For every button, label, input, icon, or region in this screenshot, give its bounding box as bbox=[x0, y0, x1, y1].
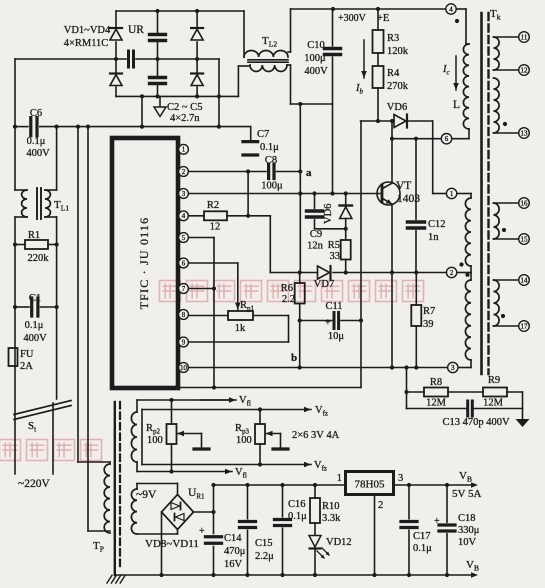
svg-text:330μ: 330μ bbox=[458, 525, 480, 536]
svg-text:1: 1 bbox=[182, 146, 186, 154]
svg-text:14: 14 bbox=[521, 276, 529, 284]
svg-text:R5: R5 bbox=[328, 240, 340, 251]
svg-text:+: + bbox=[325, 318, 331, 329]
svg-text:+: + bbox=[199, 526, 205, 537]
svg-text:8: 8 bbox=[182, 311, 186, 319]
svg-text:VT: VT bbox=[396, 180, 411, 192]
svg-text:100μ: 100μ bbox=[304, 53, 326, 64]
svg-text:16V: 16V bbox=[224, 559, 243, 570]
svg-text:0.1μ: 0.1μ bbox=[288, 511, 307, 522]
svg-text:C9: C9 bbox=[310, 229, 322, 240]
svg-text:1: 1 bbox=[450, 190, 454, 198]
svg-text:C15: C15 bbox=[255, 538, 273, 549]
svg-text:C8: C8 bbox=[265, 155, 277, 166]
svg-text:10μ: 10μ bbox=[328, 331, 345, 342]
svg-text:C18: C18 bbox=[458, 513, 476, 524]
svg-text:R4: R4 bbox=[387, 68, 400, 79]
svg-text:3: 3 bbox=[182, 190, 186, 198]
svg-text:VD12: VD12 bbox=[326, 537, 352, 548]
svg-text:C1: C1 bbox=[29, 293, 41, 304]
svg-text:4: 4 bbox=[449, 5, 453, 13]
svg-text:R8: R8 bbox=[430, 377, 442, 388]
svg-text:0.1μ: 0.1μ bbox=[27, 136, 46, 147]
svg-text:100μ: 100μ bbox=[261, 181, 283, 192]
svg-text:4×RM11C: 4×RM11C bbox=[64, 38, 109, 49]
svg-text:VD8~VD11: VD8~VD11 bbox=[145, 538, 199, 550]
svg-text:120k: 120k bbox=[387, 46, 409, 57]
svg-text:+: + bbox=[434, 516, 440, 527]
svg-text:10: 10 bbox=[180, 364, 188, 372]
svg-text:7: 7 bbox=[182, 285, 186, 293]
svg-text:3: 3 bbox=[451, 364, 455, 372]
svg-text:9: 9 bbox=[182, 338, 186, 346]
svg-text:13: 13 bbox=[521, 129, 529, 137]
svg-text:400V: 400V bbox=[26, 148, 50, 159]
svg-text:VD6: VD6 bbox=[323, 204, 334, 224]
svg-text:1403: 1403 bbox=[397, 193, 420, 205]
svg-text:R6: R6 bbox=[281, 283, 293, 294]
svg-text:R7: R7 bbox=[423, 306, 435, 317]
svg-text:1n: 1n bbox=[428, 232, 439, 243]
svg-text:39: 39 bbox=[423, 319, 434, 330]
svg-text:5V 5A: 5V 5A bbox=[452, 488, 481, 500]
svg-text:+E: +E bbox=[377, 13, 389, 24]
svg-text:220k: 220k bbox=[28, 253, 50, 264]
svg-text:4: 4 bbox=[182, 212, 186, 220]
svg-text:~9V: ~9V bbox=[136, 489, 157, 501]
svg-text:C17: C17 bbox=[413, 531, 431, 542]
svg-text:2A: 2A bbox=[20, 361, 33, 372]
svg-text:C14: C14 bbox=[224, 533, 242, 544]
svg-text:6: 6 bbox=[182, 259, 186, 267]
svg-text:12M: 12M bbox=[426, 398, 447, 409]
svg-text:2.2: 2.2 bbox=[282, 294, 295, 305]
svg-text:a: a bbox=[306, 167, 312, 179]
svg-text:2: 2 bbox=[450, 269, 454, 277]
svg-text:33: 33 bbox=[330, 251, 341, 262]
svg-text:C13 470p 400V: C13 470p 400V bbox=[442, 417, 510, 428]
svg-text:C16: C16 bbox=[288, 499, 306, 510]
svg-text:400V: 400V bbox=[23, 333, 47, 344]
svg-text:270k: 270k bbox=[387, 81, 409, 92]
svg-text:UR: UR bbox=[128, 24, 144, 36]
svg-text:3: 3 bbox=[398, 473, 403, 484]
svg-text:0.1μ: 0.1μ bbox=[413, 543, 432, 554]
svg-text:2: 2 bbox=[182, 168, 186, 176]
svg-text:C2 ~ C5: C2 ~ C5 bbox=[167, 102, 202, 113]
svg-text:0.1μ: 0.1μ bbox=[25, 320, 44, 331]
svg-text:15: 15 bbox=[521, 235, 529, 243]
svg-text:b: b bbox=[291, 352, 297, 364]
svg-text:+300V: +300V bbox=[338, 13, 367, 24]
svg-text:C6: C6 bbox=[30, 108, 42, 119]
svg-text:100: 100 bbox=[147, 435, 163, 446]
svg-text:R1: R1 bbox=[28, 230, 40, 241]
svg-text:~220V: ~220V bbox=[18, 478, 50, 490]
svg-text:VD1~VD4: VD1~VD4 bbox=[64, 25, 111, 36]
svg-text:C12: C12 bbox=[428, 219, 446, 230]
svg-text:1: 1 bbox=[337, 473, 342, 484]
svg-text:5: 5 bbox=[182, 234, 186, 242]
svg-text:12M: 12M bbox=[483, 398, 504, 409]
svg-text:17: 17 bbox=[521, 322, 529, 330]
svg-text:FU: FU bbox=[20, 349, 34, 360]
svg-text:1k: 1k bbox=[235, 323, 246, 334]
svg-text:12: 12 bbox=[210, 222, 221, 233]
svg-text:C7: C7 bbox=[257, 129, 269, 140]
svg-text:470μ: 470μ bbox=[224, 546, 246, 557]
svg-text:L: L bbox=[453, 99, 460, 111]
svg-text:2×6 3V 4A: 2×6 3V 4A bbox=[292, 430, 340, 441]
svg-text:0.1μ: 0.1μ bbox=[260, 142, 279, 153]
svg-text:TFIC · JU 0116: TFIC · JU 0116 bbox=[137, 217, 151, 310]
svg-text:R9: R9 bbox=[488, 375, 500, 386]
svg-text:2.2μ: 2.2μ bbox=[255, 551, 274, 562]
svg-text:12n: 12n bbox=[307, 241, 324, 252]
svg-text:100: 100 bbox=[236, 435, 252, 446]
svg-text:R10: R10 bbox=[322, 501, 340, 512]
svg-text:2: 2 bbox=[378, 500, 383, 511]
svg-text:R3: R3 bbox=[387, 33, 399, 44]
svg-text:6: 6 bbox=[445, 135, 449, 143]
svg-text:400V: 400V bbox=[304, 66, 328, 77]
svg-text:R2: R2 bbox=[207, 200, 219, 211]
svg-text:VD6: VD6 bbox=[387, 102, 407, 113]
svg-text:C10: C10 bbox=[307, 40, 325, 51]
svg-text:12: 12 bbox=[521, 66, 529, 74]
svg-text:VD7: VD7 bbox=[314, 279, 334, 290]
svg-text:3.3k: 3.3k bbox=[322, 513, 341, 524]
svg-text:10V: 10V bbox=[458, 537, 477, 548]
svg-text:78H05: 78H05 bbox=[355, 479, 385, 491]
svg-text:C11: C11 bbox=[325, 301, 342, 312]
svg-text:16: 16 bbox=[521, 199, 529, 207]
svg-text:4×2.7n: 4×2.7n bbox=[170, 113, 200, 124]
svg-text:11: 11 bbox=[521, 33, 528, 41]
